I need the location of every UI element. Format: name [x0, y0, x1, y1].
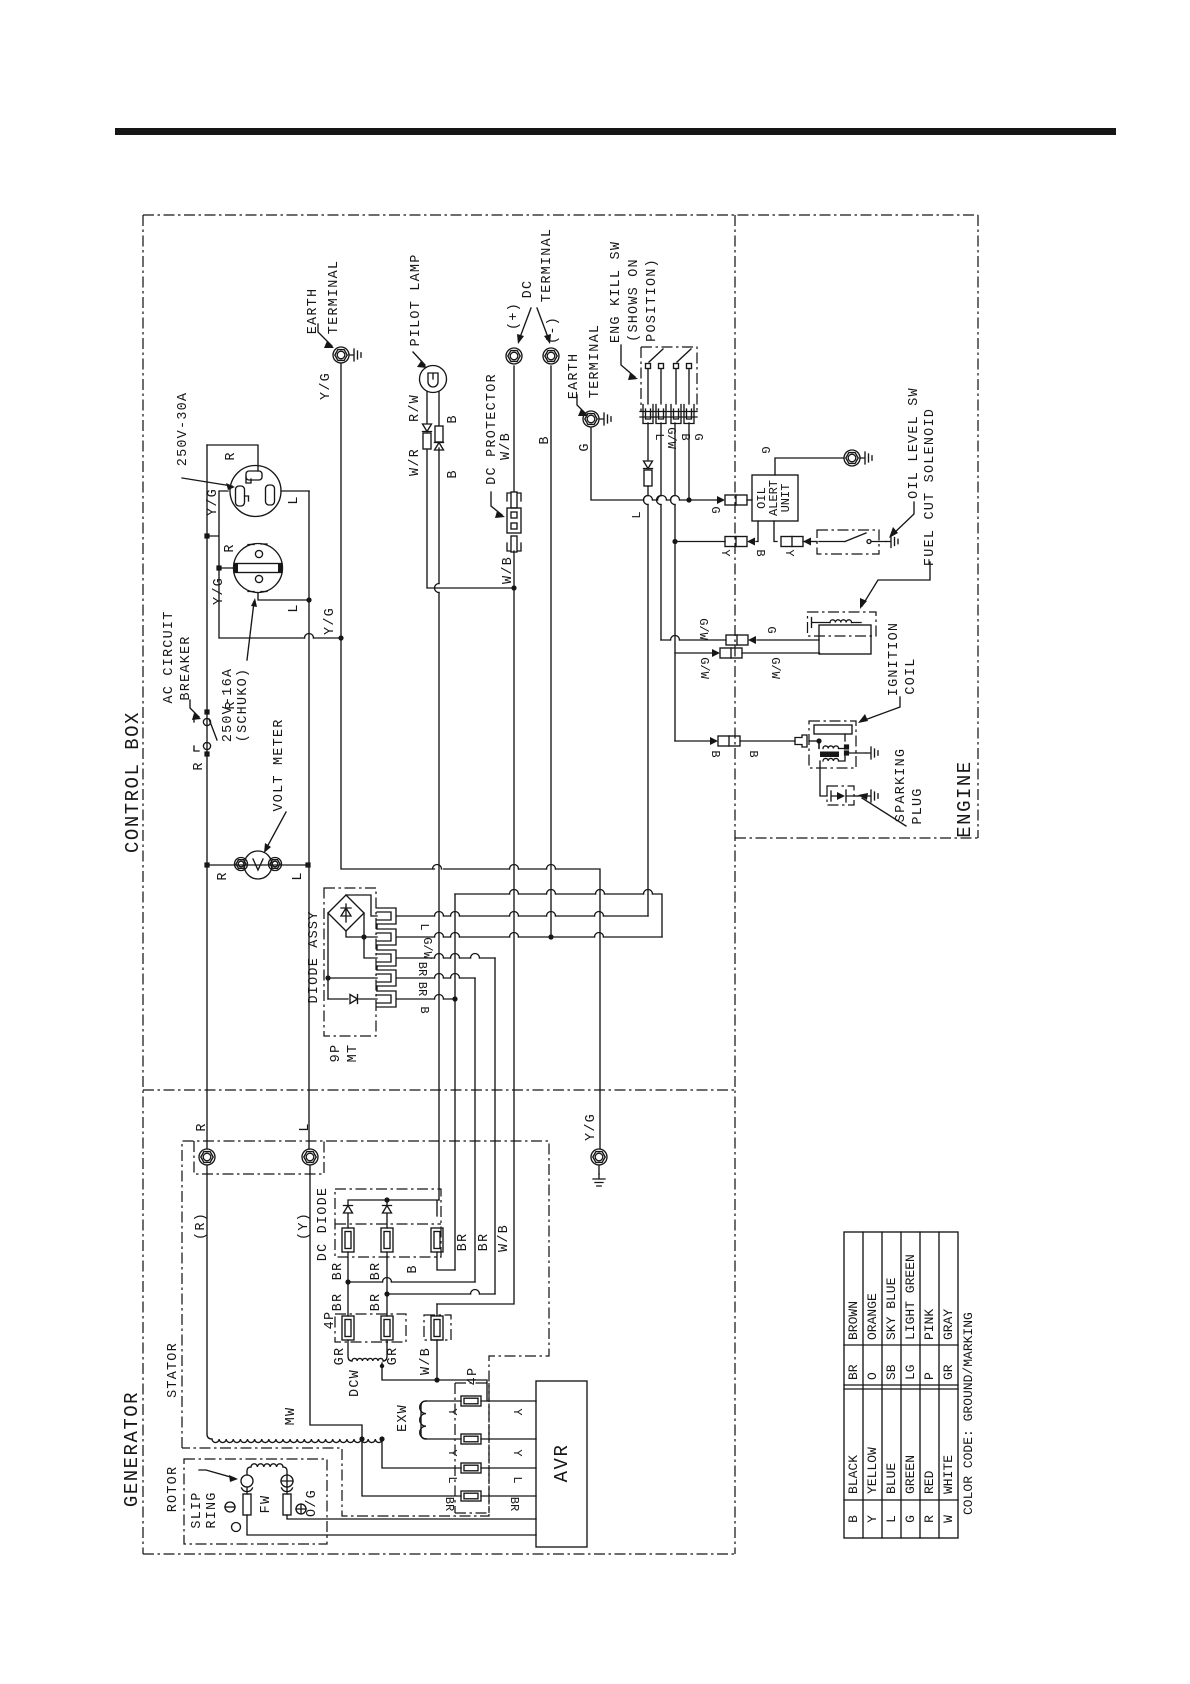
wire B kill3 [674, 423, 676, 741]
leader sparking plug [862, 798, 906, 826]
svg-text:R: R [192, 761, 207, 770]
wire R to MW [207, 1165, 212, 1439]
svg-text:BR: BR [331, 1293, 346, 1312]
wire y894 link [455, 894, 662, 937]
svg-text:B: B [417, 1006, 431, 1013]
svg-text:BLUE: BLUE [884, 1463, 899, 1494]
svg-text:G: G [708, 506, 722, 513]
svg-text:G/W: G/W [768, 657, 782, 679]
kill switch contacts [646, 364, 651, 369]
svg-text:DC: DC [521, 280, 536, 299]
svg-text:G: G [691, 433, 705, 440]
fuse pilot W/R [423, 433, 431, 449]
wire Y/G earth bus [341, 363, 600, 1149]
wire schuko out [258, 593, 309, 600]
DC terminal plus [506, 348, 522, 364]
svg-text:MT: MT [346, 1044, 361, 1063]
svg-text:BR: BR [369, 1262, 384, 1281]
wire B dc minus [550, 366, 552, 937]
svg-text:WHITE: WHITE [941, 1455, 956, 1494]
svg-text:GR: GR [386, 1347, 401, 1366]
brush arcs [242, 1488, 293, 1492]
leader oil level sw [892, 502, 914, 535]
leader ignition coil [862, 697, 900, 721]
svg-text:STATOR: STATOR [166, 1342, 181, 1398]
wire G/W line1 [661, 639, 819, 641]
leader breaker [190, 700, 199, 717]
ignition coil connector [795, 735, 807, 747]
svg-text:Y: Y [718, 549, 732, 556]
breaker AC circuit [204, 709, 209, 714]
svg-text:Y: Y [510, 1449, 524, 1456]
pin1 wire L [397, 915, 648, 917]
svg-text:BR: BR [507, 1497, 521, 1511]
svg-text:250V-30A: 250V-30A [176, 392, 191, 466]
svg-text:LG: LG [903, 1364, 918, 1380]
wire G oil alert to bolt [775, 458, 844, 475]
svg-text:GREEN: GREEN [903, 1455, 918, 1494]
wire G/W kill2 [660, 423, 662, 640]
bolt G engine [844, 450, 860, 466]
volt meter [207, 864, 308, 866]
DC terminal minus [543, 348, 559, 364]
svg-text:9P: 9P [329, 1044, 344, 1063]
engine enclosure right border [977, 215, 979, 838]
enclosure top border [143, 214, 978, 216]
svg-text:G/W: G/W [420, 937, 434, 959]
svg-text:L: L [298, 1122, 313, 1131]
wire b riser x455 [454, 894, 456, 1270]
svg-text:G/W: G/W [697, 657, 711, 679]
svg-text:O/G: O/G [305, 1489, 320, 1517]
svg-text:B: B [753, 549, 767, 556]
wire G kill4 [688, 423, 690, 500]
svg-text:EXW: EXW [396, 1404, 411, 1432]
wire B jog [437, 1252, 455, 1270]
resistor 3 [431, 1228, 443, 1252]
leader fuel cut solenoid [862, 562, 930, 606]
kill sw connector comb [643, 405, 653, 424]
color code table [844, 1232, 958, 1538]
minus symbol [225, 1502, 235, 1512]
pin5 wire B [397, 998, 455, 1000]
svg-text:EARTH: EARTH [567, 353, 582, 400]
wire Y/G receptacle ground bus [219, 568, 341, 638]
wire W/R pilot [427, 392, 514, 588]
wire Y oil alert line [675, 521, 777, 542]
svg-text:BLACK: BLACK [846, 1455, 861, 1494]
svg-text:DCW: DCW [348, 1369, 363, 1397]
control box / generator enclosure left border [142, 215, 144, 1554]
9P connector comb [377, 908, 396, 924]
svg-text:PINK: PINK [922, 1309, 937, 1340]
leader dc plus [519, 308, 531, 340]
eng kill switch box [641, 347, 697, 412]
svg-text:(SHOWS ON: (SHOWS ON [627, 258, 642, 342]
generator enclosure bottom border [143, 1553, 735, 1555]
slip ring 1 [241, 1475, 253, 1487]
terminal L [302, 1149, 318, 1165]
fuel cut solenoid [808, 612, 877, 636]
engine enclosure bottom border [735, 837, 978, 839]
svg-text:BR: BR [331, 1262, 346, 1281]
diode 1 [344, 1206, 353, 1214]
svg-text:B: B [538, 435, 553, 444]
svg-text:Y: Y [510, 1408, 524, 1415]
svg-text:B: B [446, 414, 461, 423]
svg-text:Y/G: Y/G [206, 488, 221, 516]
leader dc minus [537, 308, 549, 340]
svg-text:BR: BR [477, 1233, 492, 1252]
svg-text:L: L [291, 871, 306, 880]
svg-text:ENGINE: ENGINE [954, 760, 976, 837]
receptacle 250V-30A frame [207, 445, 309, 491]
svg-text:Y/G: Y/G [319, 372, 334, 400]
svg-text:TERMINAL: TERMINAL [327, 260, 342, 334]
resistor 2 [381, 1228, 393, 1252]
svg-text:R: R [223, 543, 238, 552]
diode assy small diode [328, 998, 377, 1000]
FW coil [247, 1467, 287, 1475]
DCW output [382, 1363, 487, 1401]
svg-text:G: G [578, 442, 593, 451]
svg-text:W/B: W/B [499, 432, 514, 460]
earth terminal 1 [333, 347, 349, 363]
svg-text:B: B [446, 469, 461, 478]
AVR box [536, 1381, 587, 1547]
bridge wires [346, 895, 377, 958]
svg-text:BR: BR [369, 1293, 384, 1312]
wire L kill1 [647, 423, 649, 916]
control box / engine divider [734, 215, 736, 1554]
svg-text:4P: 4P [466, 1367, 481, 1386]
svg-text:OIL LEVEL SW: OIL LEVEL SW [907, 387, 922, 499]
sparking plug box [827, 786, 854, 805]
kill sw wires to connector [648, 369, 689, 404]
slip ring 2 [281, 1475, 293, 1487]
MW taps [359, 1436, 364, 1441]
svg-text:R: R [224, 451, 239, 460]
wire R rail [206, 445, 208, 1149]
plus symbol [296, 1504, 306, 1514]
pin2 wire G/W [397, 936, 662, 938]
brush resistors [247, 1487, 287, 1494]
leader schuko [247, 602, 254, 660]
svg-text:W/R: W/R [408, 448, 423, 476]
svg-text:YELLOW: YELLOW [865, 1447, 880, 1494]
svg-text:AC CIRCUIT: AC CIRCUIT [162, 610, 177, 703]
wire L rail [308, 491, 310, 1149]
svg-text:VOLT METER: VOLT METER [272, 718, 287, 811]
terminal frame R L [194, 1141, 324, 1174]
MW winding [212, 1439, 382, 1443]
svg-text:G: G [758, 446, 772, 453]
diode pilot B [435, 443, 444, 451]
fuse pilot B [435, 426, 443, 442]
svg-text:Y/G: Y/G [584, 1113, 599, 1141]
svg-text:TERMINAL: TERMINAL [540, 228, 555, 302]
ignition coil box [809, 721, 856, 768]
svg-text:O: O [865, 1372, 880, 1380]
svg-text:L: L [417, 923, 431, 930]
svg-text:CONTROL BOX: CONTROL BOX [122, 711, 144, 853]
stator boundary [182, 1141, 549, 1516]
svg-text:GR: GR [941, 1364, 956, 1380]
leader earth terminal 2 [577, 395, 586, 414]
diode 2 [383, 1206, 392, 1214]
svg-text:PLUG: PLUG [911, 787, 926, 824]
svg-text:PILOT LAMP: PILOT LAMP [409, 253, 424, 346]
svg-text:Y/G: Y/G [212, 577, 227, 605]
svg-text:BREAKER: BREAKER [179, 635, 194, 700]
svg-text:B: B [746, 750, 760, 757]
wires EXW to pins [426, 1401, 461, 1439]
wire W/B dc plus [437, 366, 514, 1304]
svg-text:DC DIODE: DC DIODE [316, 1187, 331, 1261]
oil level switch box [817, 530, 879, 554]
4P resistor W/B [431, 1316, 443, 1340]
wire br riser x495 [494, 958, 496, 1294]
leader earth terminal 1 [318, 324, 332, 346]
diode pilot W/R [423, 424, 432, 432]
4P resistor 2 [381, 1316, 393, 1340]
wire BR bus2 [387, 1252, 495, 1294]
svg-text:W/B: W/B [501, 556, 516, 584]
svg-text:BR: BR [415, 982, 429, 996]
svg-text:BROWN: BROWN [846, 1301, 861, 1340]
svg-text:MW: MW [284, 1407, 299, 1426]
leader kill sw [621, 345, 635, 377]
svg-text:EARTH: EARTH [306, 288, 321, 335]
svg-text:R: R [216, 871, 231, 880]
svg-text:BR: BR [846, 1364, 861, 1380]
svg-text:L: L [884, 1515, 899, 1523]
svg-text:BR: BR [442, 1497, 456, 1511]
svg-text:L: L [510, 1476, 524, 1483]
svg-text:G: G [764, 626, 778, 633]
svg-text:R: R [195, 1122, 210, 1131]
terminal R [199, 1149, 215, 1165]
svg-text:W/B: W/B [497, 1224, 512, 1252]
wire L down [310, 1165, 362, 1439]
svg-text:COLOR CODE: GROUND/MARKING: COLOR CODE: GROUND/MARKING [961, 1312, 976, 1515]
svg-text:B: B [678, 433, 692, 440]
svg-text:POSITION): POSITION) [645, 258, 660, 342]
pilot lamp [420, 366, 447, 393]
svg-text:FUEL CUT SOLENOID: FUEL CUT SOLENOID [923, 408, 938, 566]
4P resistor box [335, 1314, 406, 1342]
svg-text:G: G [903, 1515, 918, 1523]
svg-text:L: L [287, 603, 302, 612]
bridge rectifier [328, 895, 364, 931]
wire G/W line2 [675, 653, 820, 654]
wire br riser x475 [474, 978, 476, 1282]
svg-text:Y: Y [445, 1449, 459, 1456]
receptacle 250V-30A [230, 466, 281, 517]
svg-text:BR: BR [456, 1233, 471, 1252]
wire Y/G hops on earth bus [433, 865, 556, 870]
leader 250V-30A [182, 478, 232, 486]
pin3 wire BR [397, 957, 495, 959]
dc diode bus [348, 1200, 439, 1216]
O symbol [232, 1523, 241, 1532]
svg-text:UNIT: UNIT [779, 484, 793, 513]
svg-text:W: W [941, 1515, 956, 1523]
junction W/R to W/B label wire [436, 1304, 438, 1315]
svg-text:RING: RING [205, 1491, 220, 1528]
4P pin 3 [461, 1463, 481, 1473]
svg-text:ORANGE: ORANGE [865, 1293, 880, 1340]
hop B over junction wire [435, 584, 440, 593]
wire B pilot [438, 392, 440, 1200]
bridge minus wire [328, 913, 377, 999]
svg-text:R: R [224, 700, 239, 709]
DC diode box [335, 1189, 441, 1257]
svg-text:SPARKING: SPARKING [894, 748, 909, 822]
svg-text:G/W: G/W [696, 618, 710, 640]
svg-text:L: L [287, 495, 302, 504]
svg-text:L: L [445, 1476, 459, 1483]
svg-text:TERMINAL: TERMINAL [588, 324, 603, 398]
svg-text:SKY BLUE: SKY BLUE [884, 1277, 899, 1340]
slip ring leader [199, 1470, 234, 1478]
page top rule [115, 128, 1116, 135]
wire W/B resistor bottom [436, 1340, 438, 1380]
svg-text:B: B [406, 1264, 421, 1273]
EXW winding [420, 1401, 426, 1439]
4P connector box [455, 1383, 489, 1513]
svg-text:IGNITION: IGNITION [887, 622, 902, 696]
DC protector [511, 492, 517, 508]
wire to sparking plug [820, 761, 827, 796]
svg-text:RED: RED [922, 1470, 937, 1494]
svg-text:Y: Y [782, 549, 796, 556]
svg-text:W/B: W/B [419, 1347, 434, 1375]
svg-text:FW: FW [259, 1495, 274, 1514]
leader pilot lamp [413, 352, 425, 365]
svg-text:LIGHT GREEN: LIGHT GREEN [903, 1254, 918, 1340]
svg-text:ROTOR: ROTOR [166, 1466, 181, 1513]
svg-text:(+): (+) [507, 302, 522, 330]
svg-text:GENERATOR: GENERATOR [121, 1391, 143, 1507]
wire Y/G 30A ground [207, 491, 233, 568]
svg-text:R/W: R/W [408, 394, 423, 422]
receptacle 250V-16A schuko [234, 544, 283, 593]
pin wires to AVR [481, 1401, 536, 1496]
svg-text:GR: GR [333, 1347, 348, 1366]
svg-text:B: B [708, 750, 722, 757]
leader dc protector [491, 492, 502, 515]
4P resistor 1 [342, 1316, 354, 1340]
rotor wires to AVR [247, 1515, 536, 1535]
svg-text:BR: BR [415, 962, 429, 976]
control box / generator divider [143, 1089, 735, 1091]
DCW winding [348, 1340, 387, 1361]
wires into 4P resistors [348, 1282, 387, 1316]
diode assy box [324, 888, 376, 1036]
svg-text:SB: SB [884, 1364, 899, 1380]
4P pin 2 [461, 1434, 481, 1444]
oil alert unit box [752, 475, 798, 521]
svg-text:Y: Y [865, 1515, 880, 1523]
wire B ignition [675, 740, 795, 742]
connector G to engine [717, 495, 747, 505]
resistor 1 [342, 1228, 354, 1252]
svg-text:ENG KILL SW: ENG KILL SW [609, 241, 624, 343]
svg-text:G/W: G/W [664, 427, 678, 449]
svg-text:L: L [630, 511, 644, 518]
wire G earth2 [591, 428, 719, 500]
earth terminal 2 [583, 411, 599, 427]
4P pin 1 [461, 1396, 481, 1406]
svg-text:R: R [922, 1515, 937, 1523]
rotor box [184, 1459, 327, 1544]
svg-text:COIL: COIL [904, 657, 919, 694]
Y/G generator earth [591, 1149, 607, 1165]
svg-text:B: B [846, 1515, 861, 1523]
pin4 wire BR [397, 977, 475, 979]
4P pin 4 [461, 1491, 481, 1501]
wire BR bus1 [348, 1252, 475, 1282]
svg-text:L: L [652, 433, 666, 440]
svg-text:SLIP: SLIP [190, 1491, 205, 1528]
leader volt meter [266, 812, 286, 849]
svg-text:Y: Y [445, 1408, 459, 1415]
svg-text:DIODE ASSY: DIODE ASSY [307, 910, 322, 1003]
svg-text:DC PROTECTOR: DC PROTECTOR [485, 373, 500, 485]
svg-text:AVR: AVR [551, 1444, 573, 1483]
svg-text:Y/G: Y/G [323, 607, 338, 635]
svg-text:P: P [922, 1372, 937, 1380]
svg-text:GRAY: GRAY [941, 1309, 956, 1340]
